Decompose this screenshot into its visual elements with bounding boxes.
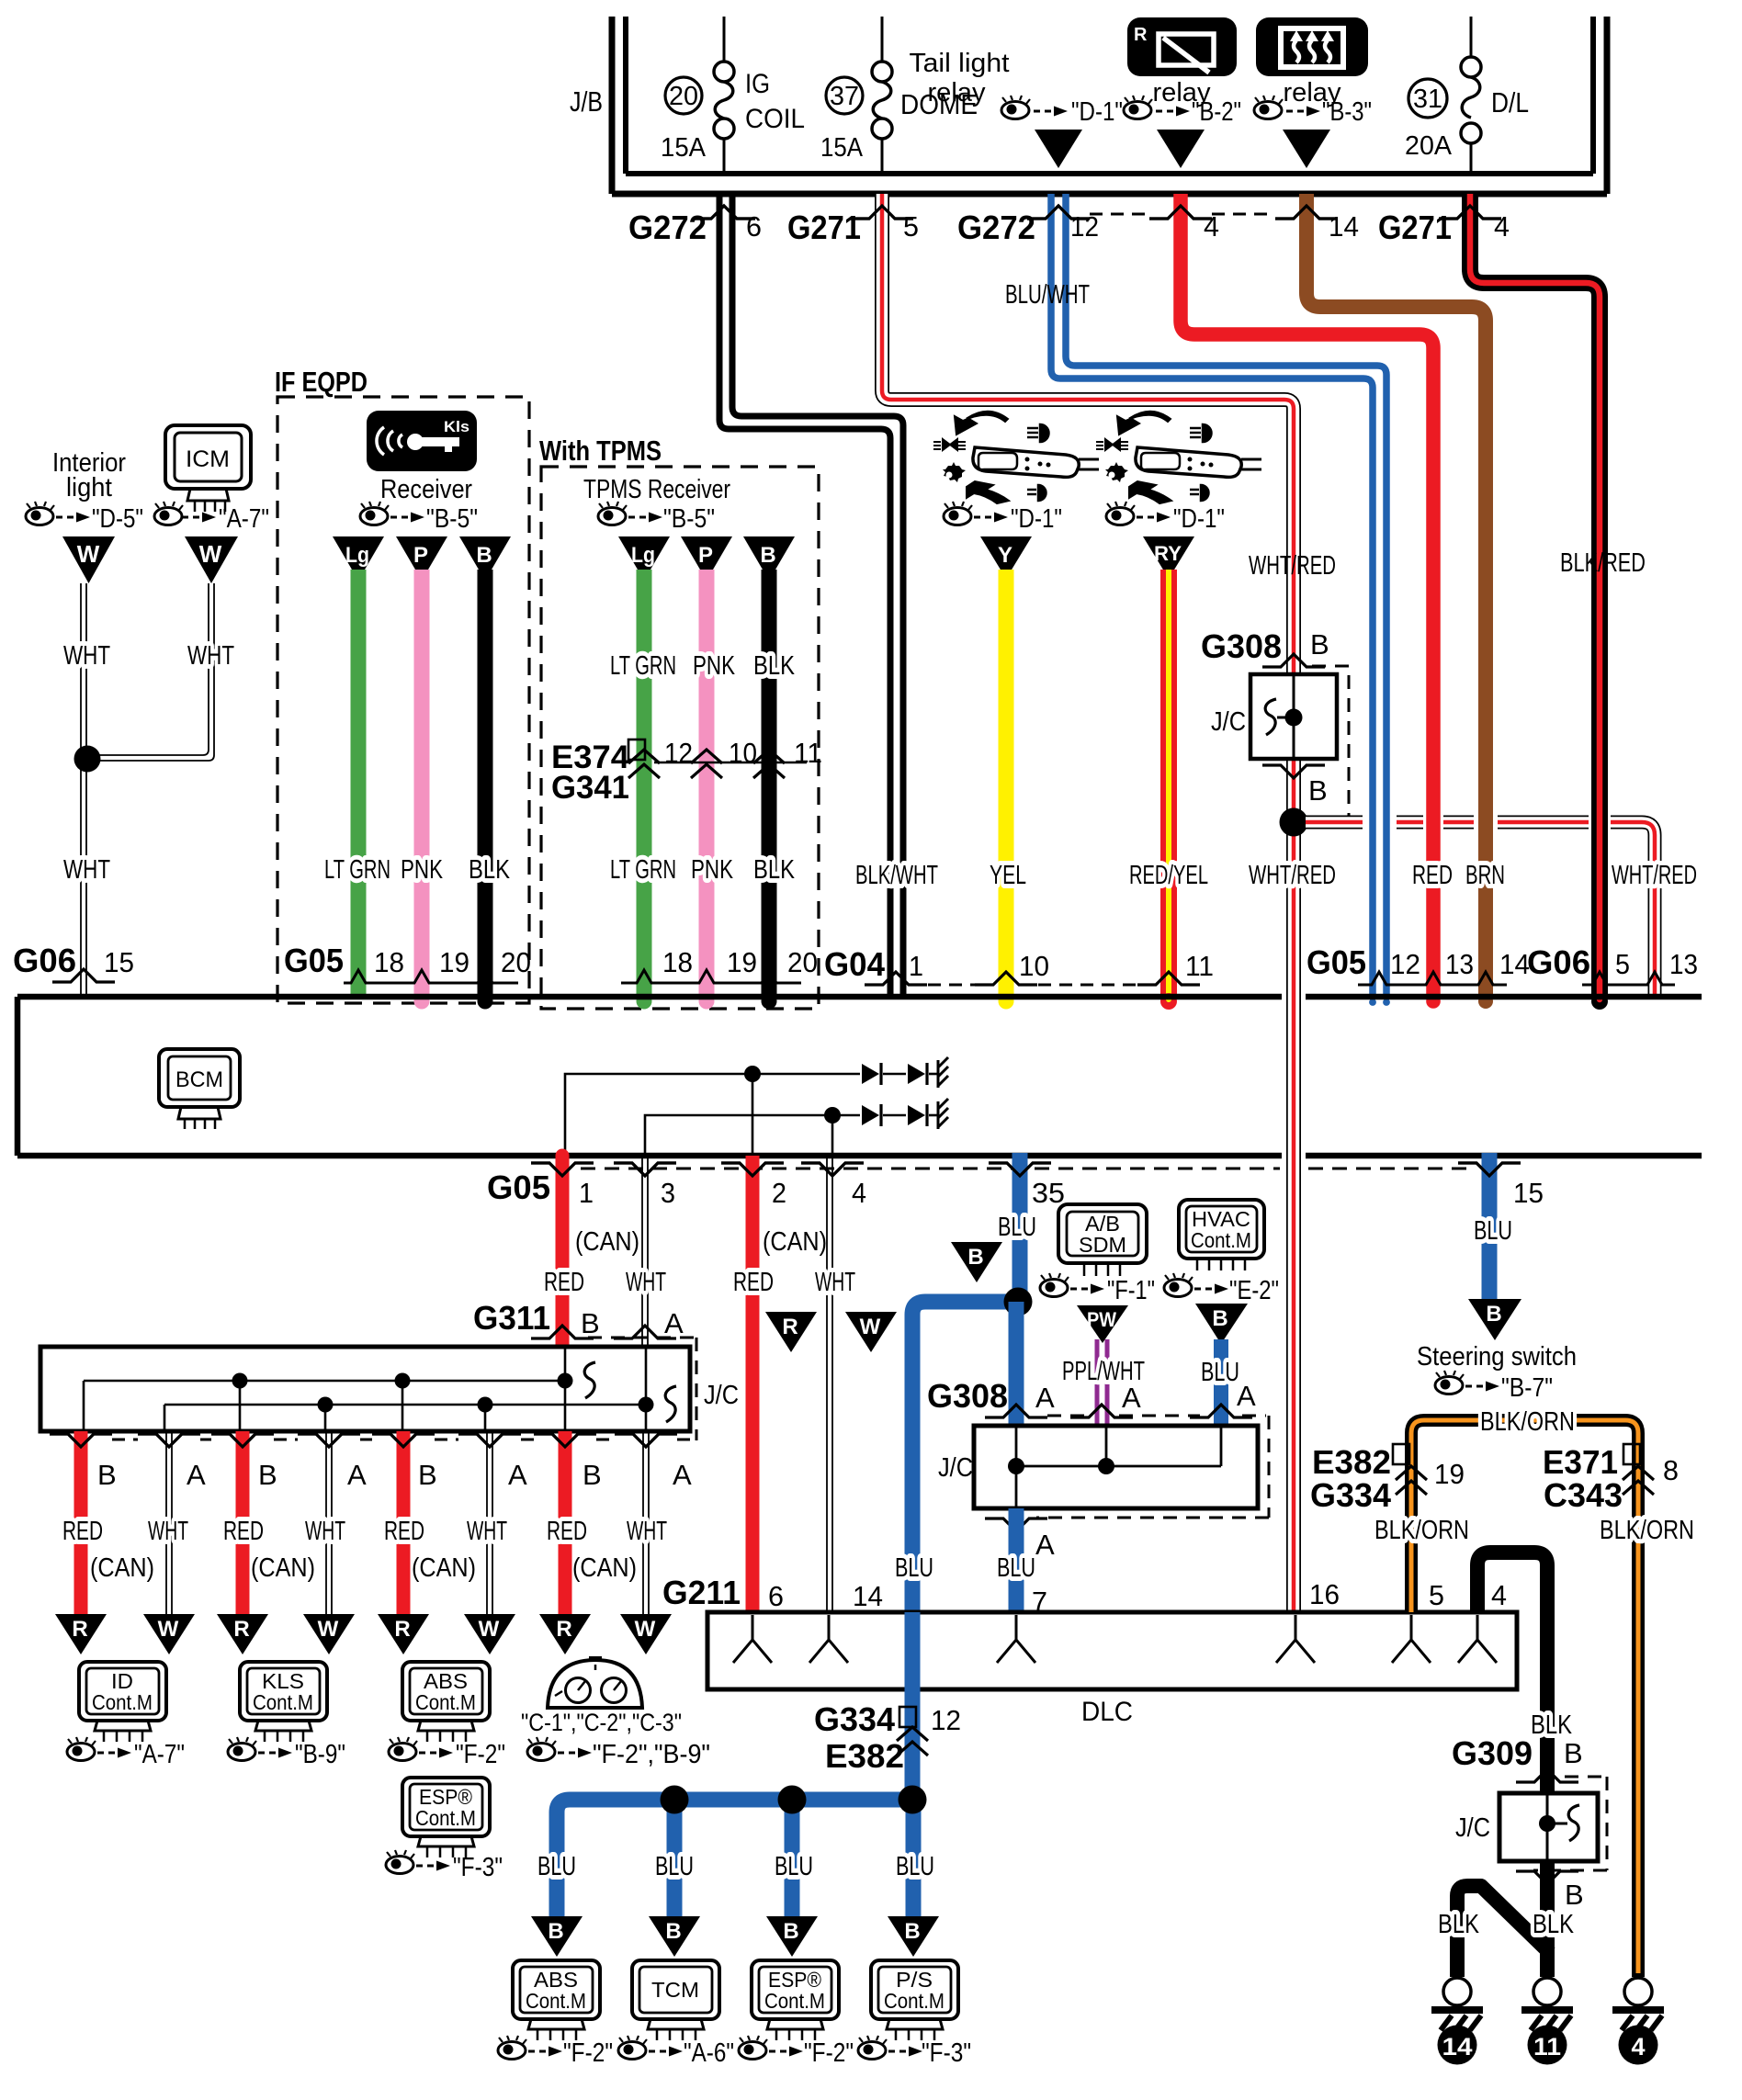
G308 lower dashed outline [1036,1416,1269,1518]
blue bus drop 4 [906,1800,922,1916]
wire WHT to ABS [487,1431,492,1614]
svg-text:B: B [583,1459,602,1491]
svg-text:RED: RED [384,1517,424,1546]
G309 dashed outline [1533,1777,1607,1870]
wire PPL/WHT double purple [1097,1339,1107,1426]
wire BLU HVAC to G308-A [1214,1339,1228,1426]
eye ref D-1 (left switch) [944,502,1062,534]
svg-text:R: R [233,1617,249,1642]
svg-text:"B-7": "B-7" [1501,1373,1553,1403]
wire BLK/ORN loop steering to G211-5 and C343 [1411,1420,1638,1977]
wire BLK TPMS [762,570,777,999]
svg-text:E382: E382 [825,1737,904,1775]
svg-text:Cont.M: Cont.M [1191,1228,1251,1252]
svg-text:18: 18 [662,946,693,978]
module ABS Cont.M (upper) [402,1662,490,1742]
svg-text:BLU/WHT: BLU/WHT [1005,280,1090,310]
svg-text:19: 19 [1434,1458,1465,1490]
fuse 31 circle [1408,79,1447,118]
rear defogger relay icon [1256,17,1368,76]
svg-text:Cont.M: Cont.M [253,1690,313,1714]
triangle P receiver [396,536,447,581]
svg-text:E382: E382 [1312,1443,1391,1481]
svg-text:37: 37 [830,82,859,111]
svg-text:5: 5 [1429,1579,1444,1611]
svg-text:4: 4 [852,1177,866,1209]
svg-text:"E-2": "E-2" [1229,1276,1279,1305]
wire from dot A to pin2 [752,1074,754,1154]
svg-text:15A: 15A [661,133,707,163]
triangle to tail light relay [1035,130,1082,168]
svg-text:WHT: WHT [63,641,110,671]
svg-text:A: A [673,1459,692,1491]
svg-text:14: 14 [1499,948,1530,980]
connector pin14 (relay B-3) [1275,206,1338,219]
svg-text:R: R [1134,25,1148,45]
svg-text:PNK: PNK [691,855,733,885]
eye ref E-2 HVAC [1164,1273,1279,1305]
wire LT GRN TPMS [637,570,652,999]
svg-text:"D-1": "D-1" [1071,97,1123,127]
junction dot interior light [74,746,101,773]
svg-text:W: W [479,1617,500,1642]
svg-text:IF EQPD: IF EQPD [275,366,368,398]
DLC pin forks [733,1615,772,1663]
BCM internal circuit line B [645,1115,860,1154]
svg-text:BLU: BLU [896,1852,934,1881]
triangle to wiper relay [1157,130,1205,168]
connector chevron B above J/C [1262,654,1325,667]
blue bus horizontal [557,1800,913,1916]
svg-text:DLC: DLC [1081,1697,1133,1727]
wire RED thick from pin4 to G05-13 [1181,194,1433,999]
svg-text:BLK/RED: BLK/RED [1560,548,1646,578]
wire WHT G05-4 to G211-14 [827,1158,832,1610]
double chevron G334-12 [897,1727,928,1756]
eye ref B-7 steering [1435,1371,1553,1403]
svg-text:R: R [394,1617,410,1642]
svg-text:Kls: Kls [444,418,469,435]
module KLS Cont.M [240,1662,327,1742]
IF EQPD dashed box [277,397,529,1003]
svg-text:BLU: BLU [537,1852,576,1881]
combination meter icon [548,1656,642,1708]
svg-text:11: 11 [1533,2033,1561,2060]
wire RED to ABS [397,1431,411,1614]
ground 14 [1431,1978,1483,2065]
svg-text:4: 4 [1494,210,1510,243]
svg-text:W: W [318,1617,339,1642]
J/C box G309 [1499,1793,1598,1861]
svg-text:(CAN): (CAN) [412,1553,476,1583]
svg-text:"B-5": "B-5" [663,504,715,534]
svg-text:PNK: PNK [693,651,735,681]
svg-text:(CAN): (CAN) [572,1553,637,1583]
ICM module icon [165,425,251,512]
svg-text:BLU: BLU [775,1852,813,1881]
svg-text:LT GRN: LT GRN [610,855,676,885]
svg-text:COIL: COIL [745,104,805,134]
svg-text:"B-3": "B-3" [1322,97,1372,127]
svg-text:IG: IG [745,69,770,99]
svg-text:31: 31 [1413,85,1442,114]
svg-text:WHT: WHT [148,1517,188,1546]
svg-text:BLK/WHT: BLK/WHT [855,861,938,890]
svg-text:(CAN): (CAN) [251,1553,315,1583]
chassis hatch B [938,1099,948,1129]
svg-text:35: 35 [1032,1177,1065,1209]
wire RED CAN G05-1 to G311-B [556,1156,570,1347]
connector double chevron pin11 black [753,750,785,778]
wire RED to KLS [236,1431,250,1614]
G311 bottom dashed with chevrons [112,1439,690,1441]
svg-text:"F-3": "F-3" [453,1853,503,1882]
eye ref D-5 interior light [26,502,143,534]
svg-text:Cont.M: Cont.M [415,1690,476,1714]
svg-text:12: 12 [931,1704,961,1736]
svg-text:20A: 20A [1405,131,1453,161]
svg-text:LT GRN: LT GRN [324,855,390,885]
svg-text:G211: G211 [662,1574,741,1611]
svg-text:5: 5 [1615,948,1630,980]
svg-text:1: 1 [579,1177,594,1209]
svg-text:J/B: J/B [570,85,603,118]
svg-text:"F-2": "F-2" [456,1740,505,1769]
svg-text:BLK: BLK [1531,1710,1573,1740]
triangle W (CAN bus marker) [845,1312,897,1352]
svg-text:Tail light: Tail light [910,49,1010,78]
fuse D/L symbol [1461,17,1481,175]
svg-text:Y: Y [998,543,1012,568]
connector link line [654,762,807,764]
wire WHT/RED from G271-5 to G308 J/C and G211-16 [882,194,1294,1610]
eye ref B-2 [1124,96,1241,127]
G311 dashed outline [588,1338,696,1440]
A/B SDM module icon [1058,1204,1147,1276]
J/C box G311 [40,1347,690,1431]
svg-text:16: 16 [1309,1578,1340,1610]
svg-text:20: 20 [787,946,818,978]
svg-text:E371: E371 [1543,1443,1618,1481]
svg-text:ICM: ICM [186,446,230,472]
svg-text:"A-7": "A-7" [219,504,269,534]
svg-text:Cont.M: Cont.M [764,1989,825,2013]
wire RED to meter [559,1431,572,1614]
svg-text:8: 8 [1663,1454,1679,1486]
svg-text:14: 14 [1442,2033,1473,2060]
svg-text:19: 19 [439,946,469,978]
eye ref A-7 ID [67,1737,185,1769]
svg-text:G06: G06 [1527,943,1590,981]
module TCM [632,1960,719,2040]
svg-text:G05: G05 [487,1169,550,1206]
chevron G309-B above [1516,1769,1578,1782]
svg-text:G05: G05 [1306,943,1366,981]
svg-text:"A-6": "A-6" [684,2038,734,2068]
svg-text:Cont.M: Cont.M [884,1989,945,2013]
svg-text:With TPMS: With TPMS [539,435,662,467]
svg-text:B: B [258,1459,277,1491]
chevron overlays (drawn above wires) [50,206,1521,1447]
triangles B bus [531,1916,583,1957]
svg-text:B: B [904,1919,920,1944]
svg-text:Cont.M: Cont.M [415,1806,476,1830]
chassis hatch A [938,1057,948,1088]
svg-text:"D-1": "D-1" [1011,504,1062,534]
svg-text:"F-2": "F-2" [563,2038,613,2068]
svg-text:A: A [1237,1380,1256,1412]
svg-text:J/C: J/C [704,1381,739,1410]
svg-text:G271: G271 [787,209,861,246]
triangle B HVAC [1195,1304,1248,1344]
double chevron E371-8 [1623,1466,1654,1495]
svg-text:A: A [664,1307,684,1339]
svg-text:WHT/RED: WHT/RED [1249,551,1336,581]
svg-text:P: P [698,543,713,568]
svg-text:(CAN): (CAN) [763,1227,827,1257]
triangle Lg TPMS [618,536,670,581]
wire BLK/RED from G271-4 to G06-5 [1470,194,1608,1010]
eye ref F-3 ESP [386,1850,503,1882]
wire BRN from pin14 to G06-14 [1306,194,1486,999]
svg-text:2: 2 [772,1177,786,1209]
wire BLK from DLC-4 up and over to G309 [1477,1552,1547,1793]
svg-text:12: 12 [664,737,693,769]
svg-text:WHT: WHT [63,855,110,885]
triangle Y [980,536,1032,579]
wire BLU elbow to G334 bus [912,1302,1018,1800]
wire BLU through DLC to G334-12 (redrawn over box) [905,1612,921,1800]
svg-text:WHT/RED: WHT/RED [1612,861,1697,890]
svg-text:"B-5": "B-5" [426,504,478,534]
wire BLK G309 to ground 11 [1540,1861,1555,1977]
wire IG COIL double black line (to G04-1, BLK/WHT) [719,194,890,998]
chevron G308-A hvac [1190,1405,1252,1417]
svg-text:13: 13 [1445,948,1474,980]
svg-text:G334: G334 [814,1700,895,1738]
double chevron E382-19 [1396,1466,1427,1495]
diode pair A [862,1063,937,1085]
triangle B TPMS [743,536,795,581]
connector square E374 [628,740,645,760]
connector chevron B below J/C [1262,765,1325,778]
svg-text:B: B [1565,1879,1584,1911]
svg-text:BLU: BLU [1201,1358,1239,1387]
dashed connector link 4-14 [1212,213,1275,216]
svg-text:Steering switch: Steering switch [1417,1342,1577,1372]
svg-text:5: 5 [903,210,919,243]
svg-text:4: 4 [1491,1579,1507,1611]
svg-text:G272: G272 [957,209,1035,246]
svg-text:B: B [783,1919,798,1944]
svg-text:W: W [635,1617,656,1642]
svg-text:W: W [199,540,222,568]
svg-text:11: 11 [1185,950,1214,982]
svg-text:A: A [1035,1529,1055,1561]
svg-text:1: 1 [909,950,923,982]
wire YEL [999,570,1014,999]
svg-text:PW: PW [1087,1308,1116,1331]
HVAC Cont.M module icon [1179,1200,1264,1270]
svg-text:BLK: BLK [469,855,511,885]
svg-text:B: B [665,1919,681,1944]
svg-text:WHT: WHT [815,1268,855,1297]
BCM box top edge [17,994,1702,1000]
svg-text:12: 12 [1390,948,1420,980]
junction dot on line A [744,1066,761,1082]
module ID Cont.M [79,1662,166,1742]
wire LT GRN receiver [351,570,367,999]
connector double chevron pin10 pink [691,750,722,778]
svg-text:"F-1": "F-1" [1107,1276,1155,1305]
svg-text:"A-7": "A-7" [134,1740,185,1769]
svg-text:BLK/ORN: BLK/ORN [1600,1516,1694,1545]
svg-text:WHT: WHT [305,1517,345,1546]
eye ref F-2 B-9 meter [527,1737,710,1769]
wire WHT to KLS [326,1431,332,1614]
svg-text:C343: C343 [1544,1476,1623,1514]
triangle B (blue marker) [951,1242,1002,1282]
svg-text:P: P [413,543,428,568]
svg-text:G272: G272 [628,209,707,246]
eye ref B-9 KLS [228,1737,345,1769]
diode pair B [862,1104,937,1126]
fuse IG COIL symbol [714,17,734,175]
svg-text:G308: G308 [1201,627,1282,665]
svg-text:G05: G05 [284,942,344,979]
wire BLU junction to G308-A [1009,1302,1024,1426]
svg-text:6: 6 [768,1580,784,1612]
svg-text:4: 4 [1631,2033,1645,2060]
fuse 37 circle [826,77,863,114]
svg-text:Cont.M: Cont.M [92,1690,153,1714]
wire BLK branch to ground 14 [1457,1886,1550,1977]
svg-text:B: B [476,543,492,568]
svg-text:J/C: J/C [938,1453,973,1483]
svg-text:Lg: Lg [345,543,369,568]
chevron G311-A [614,1326,676,1338]
wire RED/YEL striped [1160,570,1177,1010]
eye ref D-1 (right switch) [1106,502,1225,534]
blue bus drop 2 [667,1800,683,1916]
svg-text:13: 13 [1669,948,1698,980]
svg-text:B: B [1564,1737,1583,1769]
svg-text:18: 18 [374,946,404,978]
svg-text:19: 19 [727,946,757,978]
dashed connector link 12-4 [1090,213,1149,216]
svg-text:RED/YEL: RED/YEL [1129,861,1208,890]
triangle P TPMS [681,536,732,581]
svg-text:BLU: BLU [998,1213,1036,1242]
svg-text:RED: RED [544,1268,584,1297]
wire WHT from ICM joining junction [96,583,214,761]
wire WHT G05-3 to G311-A [642,1158,648,1347]
wire WHT to ID Cont.M [166,1431,172,1614]
svg-text:B: B [97,1459,117,1491]
eye ref F-2 ESP lower [739,2036,854,2068]
BCM internal circuit line A [565,1074,860,1154]
triangle B receiver [459,536,511,581]
ground 4 [1612,1978,1664,2065]
junction dot WHT/RED [1280,808,1308,837]
svg-text:G341: G341 [551,770,629,806]
chevron below G308 J/C [985,1519,1047,1531]
svg-text:"B-9": "B-9" [295,1740,345,1769]
chevron G309-B below [1516,1871,1578,1884]
svg-text:RED: RED [62,1517,103,1546]
svg-text:B: B [548,1919,563,1944]
eye ref F-3 P/S [858,2036,971,2068]
svg-text:15A: 15A [820,133,864,163]
svg-text:A: A [508,1459,527,1491]
svg-text:BLU: BLU [997,1553,1035,1583]
eye ref A-6 TCM [618,2036,734,2068]
svg-text:6: 6 [746,210,762,243]
dashed line below BCM [581,1168,1467,1170]
svg-text:W: W [860,1315,881,1339]
svg-text:Receiver: Receiver [380,475,472,504]
svg-text:YEL: YEL [990,861,1026,890]
svg-text:Cont.M: Cont.M [526,1989,586,2013]
eye ref F-1 SDM [1040,1273,1155,1305]
svg-text:10: 10 [729,737,757,769]
svg-text:BLK: BLK [1438,1910,1480,1939]
svg-text:D/L: D/L [1491,86,1529,119]
DLC box [707,1612,1517,1689]
module ESP Cont.M (upper) [402,1778,490,1857]
headlight switch icon (left) [933,412,1099,503]
svg-text:WHT/RED: WHT/RED [1249,861,1336,890]
eye ref A-7 ICM [154,502,269,534]
wire BLU G308 to G211-7 [1009,1508,1024,1610]
connector double chevron pin12 green [628,750,660,778]
svg-text:BLU: BLU [1474,1216,1512,1246]
ground 11 [1521,1978,1573,2065]
svg-text:TCM: TCM [651,1978,699,2002]
svg-text:W: W [158,1617,179,1642]
wire BLU G05-35 down to junction [1012,1153,1028,1302]
wire BLU G05-15 stub [1482,1153,1498,1301]
svg-text:W: W [77,540,100,568]
wire BLU/WHT double blue from G272-12 to G05-12 [1051,194,1373,998]
svg-text:A: A [187,1459,206,1491]
eye ref F-2 ABS lower [498,2036,613,2068]
svg-text:relay: relay [928,78,986,107]
svg-text:(CAN): (CAN) [90,1553,154,1583]
chevron G308-A ppl [1070,1405,1133,1417]
connector TPMS pins 18 19 20 [621,970,801,983]
J/C box G308 lower [974,1426,1258,1508]
svg-text:B: B [1486,1302,1501,1327]
triangle RY [1143,536,1194,579]
J/B junction block box outer border [612,17,1607,194]
wire from dot B to pin4 [831,1115,834,1154]
wire RED CAN G05-2 to G211-6 [746,1156,760,1610]
blue bus drop 3 [785,1800,800,1916]
svg-text:B: B [760,543,775,568]
wire PNK TPMS [699,570,715,999]
chevron G308-A blue [985,1405,1047,1417]
svg-text:G06: G06 [13,942,76,979]
triangle B steering [1468,1299,1521,1340]
svg-text:"F-2": "F-2" [804,2038,854,2068]
triangle W interior light [62,536,115,583]
svg-text:BLK: BLK [753,855,796,885]
svg-text:WHT: WHT [467,1517,507,1546]
wire WHT/RED branch to G06-13 (with crossover gaps) [1306,822,1655,999]
svg-text:G308: G308 [927,1377,1008,1415]
svg-text:R: R [782,1315,797,1339]
